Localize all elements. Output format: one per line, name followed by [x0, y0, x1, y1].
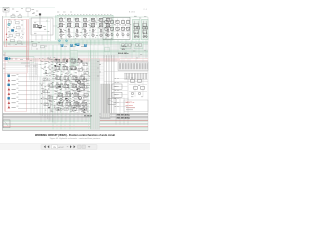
svg-text:300.9.301a: 300.9.301a: [118, 53, 129, 55]
svg-text:300.300.400a: 300.300.400a: [117, 113, 131, 116]
svg-text:WORKING CIRCUIT (35020) - Posi: WORKING CIRCUIT (35020) - Position contr…: [35, 134, 115, 137]
svg-text:Figure 45. Hydraulic schematic: Figure 45. Hydraulic schematic - continu…: [50, 137, 101, 140]
svg-text:of 107: of 107: [58, 147, 63, 149]
svg-text:2 - 1: 2 - 1: [144, 9, 147, 11]
svg-text:xxx xxxxx: xxx xxxxx: [126, 105, 133, 107]
svg-text:30.30.03: 30.30.03: [84, 116, 93, 118]
svg-text:SAFETY xx: SAFETY xx: [126, 101, 135, 104]
svg-text:301.300.400a: 301.300.400a: [117, 116, 131, 119]
svg-text:B 1 B 2: B 1 B 2: [129, 11, 135, 13]
